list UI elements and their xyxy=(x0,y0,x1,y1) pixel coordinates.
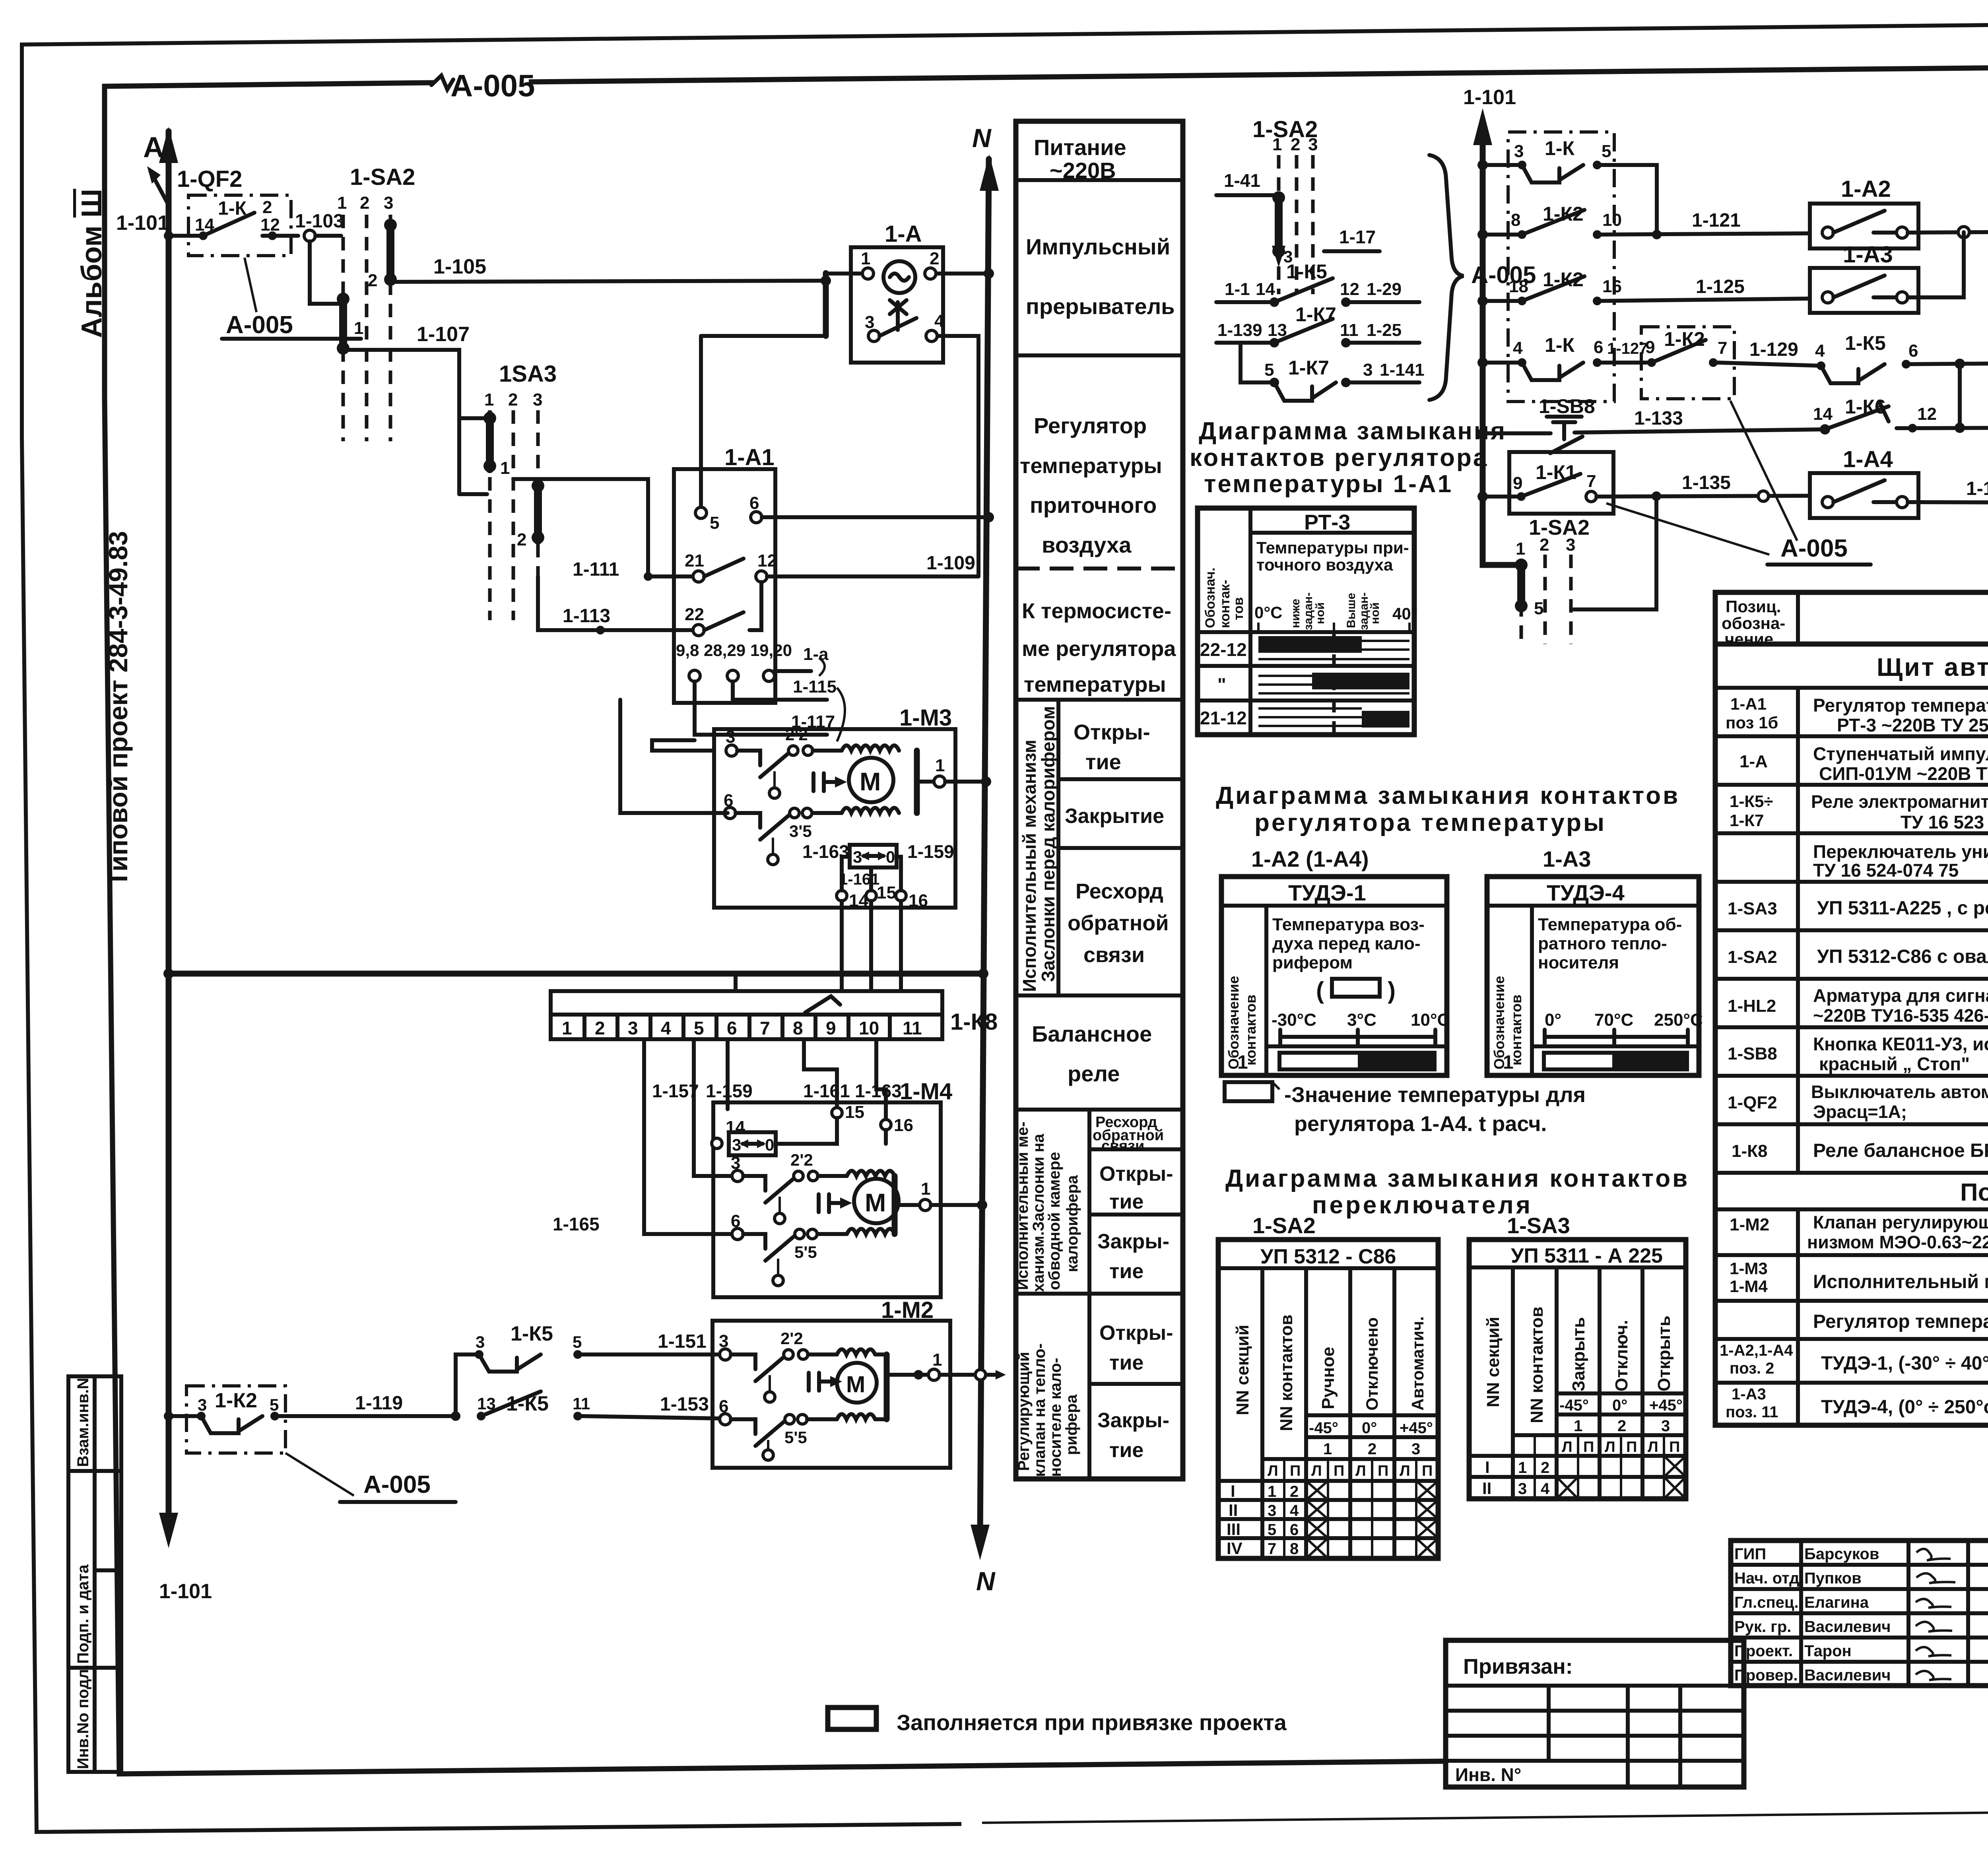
svg-text:1-135: 1-135 xyxy=(1682,472,1731,493)
svg-text:1: 1 xyxy=(935,756,945,775)
svg-text:3: 3 xyxy=(533,390,542,409)
svg-text:3: 3 xyxy=(1514,142,1524,161)
node 1-103 xyxy=(295,211,344,241)
svg-text:П: П xyxy=(1334,1463,1344,1479)
svg-text:6: 6 xyxy=(727,1018,737,1038)
contact 1-K (4-6) + wire 1-127 xyxy=(1477,334,1652,380)
svg-text:1-29: 1-29 xyxy=(1367,279,1402,299)
svg-text:2: 2 xyxy=(1290,1483,1299,1500)
svg-text:1: 1 xyxy=(921,1179,930,1199)
interrupter 1-A box xyxy=(851,221,944,363)
svg-text:1-17: 1-17 xyxy=(1339,227,1376,247)
svg-text:прерыватель: прерыватель xyxy=(1026,294,1175,319)
svg-text:1-105: 1-105 xyxy=(433,255,486,278)
svg-text:П: П xyxy=(1290,1463,1301,1479)
svg-text:1: 1 xyxy=(1574,1417,1582,1435)
svg-text:1: 1 xyxy=(484,390,494,409)
svg-text:5: 5 xyxy=(270,1395,279,1414)
svg-text:1-К1: 1-К1 xyxy=(1536,461,1576,483)
parts table: row 1-M2 xyxy=(1715,1212,1988,1255)
wire 1-121 xyxy=(1597,210,1810,235)
svg-text:0°С: 0°С xyxy=(1254,603,1283,622)
svg-text:1-К5: 1-К5 xyxy=(506,1392,549,1415)
callout A-005 (QF2 assembly) xyxy=(222,258,361,339)
parts table: row 1-K5..1-K7 xyxy=(1715,792,1988,833)
wire bus A to bus N (lower link) xyxy=(163,968,988,979)
svg-text:клапан на тепло-: клапан на тепло- xyxy=(1031,1343,1048,1477)
svg-text:Ступенчатый импульсный преры: Ступенчатый импульсный прерыватель xyxy=(1813,743,1988,764)
svg-text:1-165: 1-165 xyxy=(553,1214,600,1234)
svg-text:Регулятор температуры дилат: Регулятор температуры дилатометрический xyxy=(1813,1311,1988,1332)
svg-text:Взам.инв.N: Взам.инв.N xyxy=(74,1378,92,1467)
svg-text:8: 8 xyxy=(793,1018,803,1038)
svg-text:1-QF2: 1-QF2 xyxy=(177,166,242,192)
svg-text:3: 3 xyxy=(1518,1480,1527,1498)
svg-text:Л: Л xyxy=(1648,1439,1658,1455)
svg-text:1-А3: 1-А3 xyxy=(1732,1385,1766,1403)
table PT-3 (controller 1-A1 contact diagram) xyxy=(1198,508,1418,735)
svg-text:12: 12 xyxy=(1917,404,1937,424)
svg-text:ТУДЭ-4: ТУДЭ-4 xyxy=(1547,880,1625,905)
svg-text:22-12: 22-12 xyxy=(1200,639,1247,660)
parts table: row 1-K8 xyxy=(1715,1140,1988,1173)
svg-text:9: 9 xyxy=(1513,473,1522,493)
svg-text:5'5: 5'5 xyxy=(784,1428,807,1447)
svg-text:IV: IV xyxy=(1227,1539,1242,1558)
svg-text:Исполнительный механизм МЭО-: Исполнительный механизм МЭО-0.63 ~220В xyxy=(1813,1271,1988,1292)
svg-text:поз. 2: поз. 2 xyxy=(1730,1360,1774,1377)
contact 1-K2 (bottom row, assembly) xyxy=(164,1386,285,1453)
wire 1-105 xyxy=(394,255,826,282)
contact 1-K2 (18-16) xyxy=(1477,268,1622,306)
svg-text:РТ-3 ~220В ТУ 25-02(3У2 574: РТ-3 ~220В ТУ 25-02(3У2 574 096)-75Е xyxy=(1837,715,1988,735)
svg-text:Подп. и дата: Подп. и дата xyxy=(74,1564,92,1664)
function column frame xyxy=(1016,121,1183,1479)
svg-text:16: 16 xyxy=(1602,277,1622,296)
net label A-005 on frame top with break mark xyxy=(431,68,535,103)
svg-text:1-157: 1-157 xyxy=(652,1081,699,1101)
svg-text:3: 3 xyxy=(719,1331,728,1351)
svg-text:Альбом Ш: Альбом Ш xyxy=(76,189,108,338)
svg-text:Л: Л xyxy=(1605,1439,1615,1455)
wire 1-109 xyxy=(767,553,978,576)
svg-text:1-101: 1-101 xyxy=(1463,86,1516,109)
svg-text:ТУДЭ-1, (-30° ÷ 40°с) ТУ 25.0: ТУДЭ-1, (-30° ÷ 40°с) ТУ 25.02.281074-78 xyxy=(1821,1353,1988,1374)
svg-text:3: 3 xyxy=(853,848,862,866)
svg-text:2: 2 xyxy=(1540,535,1549,555)
svg-text:1-159: 1-159 xyxy=(706,1081,753,1101)
svg-text:9: 9 xyxy=(1645,338,1655,357)
svg-text:Исполнительный механизм: Исполнительный механизм xyxy=(1019,740,1040,992)
svg-text:3: 3 xyxy=(384,193,393,213)
cell: Питание ~220В xyxy=(1016,135,1183,183)
svg-text:1-SA3: 1-SA3 xyxy=(1728,899,1777,918)
svg-text:1-HL2: 1-HL2 xyxy=(1728,996,1776,1016)
wire 1-119 xyxy=(279,1393,456,1416)
svg-text:-45°: -45° xyxy=(1309,1419,1338,1437)
svg-text:2: 2 xyxy=(1291,135,1300,154)
svg-text:А-005: А-005 xyxy=(363,1471,431,1498)
svg-text:13: 13 xyxy=(477,1394,496,1413)
svg-text:1-41: 1-41 xyxy=(1224,170,1260,191)
svg-text:1-SA2: 1-SA2 xyxy=(1252,1213,1316,1238)
svg-text:Переключатель универсальный: Переключатель универсальный xyxy=(1813,841,1988,862)
svg-text:П: П xyxy=(1422,1463,1433,1479)
svg-text:Арматура для сигнальных лам: Арматура для сигнальных ламп АС-220 xyxy=(1813,985,1988,1006)
wires 1-K8 to 1-M4 xyxy=(553,1039,902,1234)
svg-text:1-А2: 1-А2 xyxy=(1841,176,1891,202)
svg-text:СИП-01УМ ~220В ТУ 50-58-76: СИП-01УМ ~220В ТУ 50-58-76 xyxy=(1819,763,1988,784)
svg-text:1-К2: 1-К2 xyxy=(1664,328,1705,350)
section: Исполнительный механизм Заслонки перед калорифером xyxy=(1016,700,1183,995)
svg-text:7: 7 xyxy=(1718,338,1727,358)
svg-text:УП 5312 - С86: УП 5312 - С86 xyxy=(1260,1245,1396,1268)
svg-text:Заполняется при привязке пр: Заполняется при привязке проекта xyxy=(897,1710,1287,1735)
svg-text:9: 9 xyxy=(826,1018,836,1038)
svg-text:1: 1 xyxy=(1503,1052,1514,1073)
svg-text:ГИП: ГИП xyxy=(1734,1545,1766,1563)
svg-text:Диаграмма замыкания контактов: Диаграмма замыкания контактов xyxy=(1225,1165,1689,1192)
svg-text:1-А: 1-А xyxy=(885,221,922,247)
svg-text:1-А1: 1-А1 xyxy=(724,444,775,470)
svg-text:6: 6 xyxy=(724,791,733,810)
svg-text:6: 6 xyxy=(749,493,759,513)
cell: Балансное реле xyxy=(1016,1021,1183,1110)
svg-text:ратного тепло-: ратного тепло- xyxy=(1538,934,1667,953)
svg-text:носителе кало-: носителе кало- xyxy=(1047,1358,1064,1477)
svg-text:1-113: 1-113 xyxy=(563,605,610,627)
svg-text:": " xyxy=(1217,674,1226,695)
svg-text:-Значение температуры для: -Значение температуры для xyxy=(1284,1083,1586,1107)
svg-text:N: N xyxy=(972,123,992,153)
svg-text:Ресхорд: Ресхорд xyxy=(1076,879,1163,903)
svg-text:Василевич: Василевич xyxy=(1804,1618,1891,1636)
svg-text:1-К5: 1-К5 xyxy=(511,1322,553,1345)
bus A (phase) vertical xyxy=(143,127,178,1548)
svg-text:1-163: 1-163 xyxy=(802,841,849,862)
svg-text:6: 6 xyxy=(1908,341,1918,361)
svg-text:Диаграмма замыкания контактов: Диаграмма замыкания контактов xyxy=(1216,782,1680,809)
svg-text:1-К: 1-К xyxy=(218,198,247,219)
button 1-SB8 and wire 1-133 xyxy=(1477,395,1825,453)
svg-text:Позиц.: Позиц. xyxy=(1726,597,1781,616)
svg-text:4: 4 xyxy=(1541,1480,1550,1498)
table UP5311-A225 (switch 1-SA3 diagram) xyxy=(1469,1240,1686,1499)
svg-text:Нач. отд.: Нач. отд. xyxy=(1734,1570,1804,1587)
svg-text:250°С: 250°С xyxy=(1654,1010,1703,1030)
svg-text:Регулятор: Регулятор xyxy=(1034,413,1147,438)
wire 1-a stub xyxy=(775,644,829,676)
svg-text:Отключено: Отключено xyxy=(1363,1318,1381,1411)
svg-text:А-005: А-005 xyxy=(226,311,293,339)
svg-text:1-137: 1-137 xyxy=(1966,478,1988,499)
svg-text:Регулирующий: Регулирующий xyxy=(1015,1352,1033,1471)
contact 1-K5 (14-12 row, middle) xyxy=(1216,260,1419,307)
svg-text:1-139: 1-139 xyxy=(1217,320,1262,340)
wires around 1-A xyxy=(701,268,994,576)
svg-text:+45°: +45° xyxy=(1400,1419,1433,1437)
svg-text:II: II xyxy=(1229,1501,1238,1519)
svg-text:1-163: 1-163 xyxy=(855,1081,902,1101)
controller contact 1-A3 box xyxy=(1810,242,1918,313)
svg-text:М: М xyxy=(846,1372,865,1397)
svg-text:Л: Л xyxy=(1311,1463,1322,1479)
svg-text:По месту: По месту xyxy=(1960,1179,1988,1206)
svg-text:3: 3 xyxy=(476,1333,485,1351)
svg-text:переключателя: переключателя xyxy=(1312,1191,1533,1219)
svg-text:Щит автоматизации П-1: Щит автоматизации П-1 xyxy=(1877,653,1988,681)
svg-text:тие: тие xyxy=(1109,1439,1143,1462)
svg-text:рифером: рифером xyxy=(1272,953,1353,972)
svg-text:1: 1 xyxy=(354,318,363,338)
svg-text:Закры-: Закры- xyxy=(1097,1230,1169,1253)
svg-text:1-К2: 1-К2 xyxy=(215,1389,257,1412)
contact 1-K (3-5) xyxy=(1477,137,1657,235)
svg-text:4: 4 xyxy=(1815,341,1825,361)
svg-text:3: 3 xyxy=(1363,360,1373,380)
table TUDE-4 (1-A3 contact diagram) xyxy=(1487,877,1703,1075)
svg-text:тие: тие xyxy=(1109,1260,1143,1283)
svg-text:контактов регулятора: контактов регулятора xyxy=(1190,444,1488,472)
svg-text:5: 5 xyxy=(573,1333,582,1351)
svg-text:5: 5 xyxy=(1268,1521,1276,1539)
svg-text:3: 3 xyxy=(1308,135,1318,154)
svg-text:1-SA2: 1-SA2 xyxy=(350,164,415,190)
svg-text:NN контактов: NN контактов xyxy=(1277,1314,1296,1431)
actuator 1-M2 box xyxy=(712,1297,950,1468)
svg-text:приточного: приточного xyxy=(1030,493,1157,518)
wire 1-131 and lamp 1-HL2 xyxy=(1960,324,1988,378)
svg-text:1SA3: 1SA3 xyxy=(499,361,557,387)
svg-text:1: 1 xyxy=(1272,135,1282,154)
svg-text:4: 4 xyxy=(1290,1502,1299,1519)
wire 1-M2 terminal 1 to bus N xyxy=(940,1370,1006,1380)
svg-text:11: 11 xyxy=(903,1018,922,1038)
wire 1-101 row xyxy=(164,231,203,241)
svg-text:Инв. N°: Инв. N° xyxy=(1455,1764,1521,1785)
svg-text:~220В: ~220В xyxy=(1050,158,1116,183)
svg-text:40°: 40° xyxy=(1392,604,1418,623)
svg-text:Реле балансное БР-3 ~220В: Реле балансное БР-3 ~220В ТУ 25.15.531-7… xyxy=(1813,1140,1988,1161)
svg-text:К термосисте-: К термосисте- xyxy=(1022,599,1171,623)
svg-text:3: 3 xyxy=(1661,1417,1670,1435)
svg-text:18: 18 xyxy=(1509,277,1528,296)
svg-text:3'5: 3'5 xyxy=(789,822,812,840)
svg-text:12: 12 xyxy=(757,551,777,570)
parts table: row ТУДЭ-1 xyxy=(1715,1342,1988,1383)
svg-text:10°С: 10°С xyxy=(1411,1010,1450,1030)
svg-text:21: 21 xyxy=(685,551,704,570)
svg-text:5: 5 xyxy=(694,1018,704,1038)
svg-text:0°: 0° xyxy=(1612,1397,1627,1414)
svg-text:1-161: 1-161 xyxy=(803,1081,850,1101)
svg-text:1-121: 1-121 xyxy=(1692,210,1741,231)
svg-text:7: 7 xyxy=(760,1018,770,1038)
svg-text:Открыть: Открыть xyxy=(1654,1316,1674,1391)
svg-text:Л: Л xyxy=(1355,1463,1366,1479)
svg-text:1-101: 1-101 xyxy=(159,1580,212,1603)
svg-text:Василевич: Василевич xyxy=(1804,1667,1891,1684)
svg-text:22: 22 xyxy=(685,605,704,624)
svg-text:УП 5311 - А 225: УП 5311 - А 225 xyxy=(1511,1244,1663,1267)
svg-text:Температура воз-: Температура воз- xyxy=(1272,915,1425,934)
svg-text:0°: 0° xyxy=(1362,1419,1377,1437)
svg-text:7: 7 xyxy=(1268,1540,1276,1558)
svg-text:Откры-: Откры- xyxy=(1074,720,1150,744)
svg-text:1-К7: 1-К7 xyxy=(1288,357,1329,379)
parts table: column lines xyxy=(1798,688,1988,1425)
wire 1-137 and relay coil 1-K7 xyxy=(1908,442,1988,530)
svg-text:Кнопка КЕ011-У3, исп 2 ТУ16: Кнопка КЕ011-У3, исп 2 ТУ16 526 407-76 xyxy=(1813,1034,1988,1054)
svg-text:ТУДЭ-4, (0° ÷ 250°с) ТУ 25.02: ТУДЭ-4, (0° ÷ 250°с) ТУ 25.02.281074-78 xyxy=(1821,1397,1988,1418)
svg-text:1-М4: 1-М4 xyxy=(900,1079,952,1104)
svg-text:1-К8: 1-К8 xyxy=(1732,1141,1767,1161)
svg-text:1: 1 xyxy=(861,249,870,268)
svg-text:связи: связи xyxy=(1101,1138,1144,1155)
svg-text:реле: реле xyxy=(1068,1061,1120,1086)
svg-text:3°С: 3°С xyxy=(1347,1010,1376,1030)
contact 1-K (14-12) in assembly box xyxy=(188,195,298,256)
svg-text:+45°: +45° xyxy=(1649,1397,1683,1414)
svg-text:3: 3 xyxy=(198,1395,207,1414)
table Привязан xyxy=(1446,1640,1744,1787)
contact 1-K2 (9-7) in assembly box xyxy=(1641,327,1734,399)
svg-text:низмом МЭО-0.63~220В ТУ1-277: низмом МЭО-0.63~220В ТУ1-277 ду= xyxy=(1807,1232,1988,1252)
wire 1-153 xyxy=(582,1394,723,1418)
svg-text:I: I xyxy=(1231,1482,1235,1500)
svg-text:точного воздуха: точного воздуха xyxy=(1256,555,1393,574)
svg-text:15: 15 xyxy=(877,883,896,902)
svg-text:6: 6 xyxy=(1594,338,1603,357)
svg-text:0: 0 xyxy=(765,1135,774,1154)
svg-text:5: 5 xyxy=(1602,142,1611,161)
wire 1-111 xyxy=(513,479,693,581)
callout A-005 (1-K2 assembly) xyxy=(285,1453,456,1502)
switch 1-SA2 (right section) xyxy=(1515,491,1661,644)
svg-text:рифера: рифера xyxy=(1063,1394,1080,1455)
svg-text:11: 11 xyxy=(1340,320,1359,340)
parts list table xyxy=(1715,592,1988,1425)
svg-text:регулятора температуры: регулятора температуры xyxy=(1254,809,1606,836)
svg-text:ниже: ниже xyxy=(1289,599,1302,628)
svg-text:Типовой проект 284-3-49.83: Типовой проект 284-3-49.83 xyxy=(103,531,133,887)
svg-text:ТУ 16 524-074 75: ТУ 16 524-074 75 xyxy=(1813,860,1959,881)
svg-text:1: 1 xyxy=(1323,1440,1332,1458)
parts table: row 1-A1 xyxy=(1715,695,1988,736)
svg-text:П: П xyxy=(1378,1463,1388,1479)
svg-text:Клапан регулирующий 254931нк: Клапан регулирующий 254931нк с исполните… xyxy=(1813,1212,1988,1232)
contact 1-K5 (4-6 NC) xyxy=(1815,332,1965,383)
svg-text:1-К7: 1-К7 xyxy=(1295,303,1336,326)
svg-text:поз. 11: поз. 11 xyxy=(1726,1403,1778,1421)
parts table: row 1-SA2 xyxy=(1715,941,1988,979)
svg-text:контак-: контак- xyxy=(1217,580,1233,628)
svg-text:Регулятор температуры электр: Регулятор температуры электрический xyxy=(1813,695,1988,716)
legend: заполняется при привязке xyxy=(828,1708,1287,1735)
svg-text:1-119: 1-119 xyxy=(355,1393,403,1414)
svg-text:Исполнительный ме-: Исполнительный ме- xyxy=(1014,1122,1031,1290)
svg-text:Закрытие: Закрытие xyxy=(1065,805,1164,828)
svg-text:воздуха: воздуха xyxy=(1042,532,1132,557)
svg-text:красный „ Стоп": красный „ Стоп" xyxy=(1819,1054,1970,1074)
svg-text:Рук. гр.: Рук. гр. xyxy=(1734,1618,1791,1636)
svg-text:обратной: обратной xyxy=(1068,911,1169,935)
svg-text:14: 14 xyxy=(849,891,868,910)
svg-text:1-К2: 1-К2 xyxy=(1543,203,1584,225)
svg-text:6: 6 xyxy=(1290,1521,1299,1539)
svg-text:5: 5 xyxy=(1264,360,1274,380)
parts table: section Щит автоматизации П-1 xyxy=(1715,653,1988,688)
svg-text:1: 1 xyxy=(562,1018,572,1038)
svg-text:температуры 1-А1: температуры 1-А1 xyxy=(1204,470,1453,498)
svg-text:0°: 0° xyxy=(1545,1010,1561,1030)
svg-text:2'2: 2'2 xyxy=(790,1151,813,1169)
svg-text:5'5: 5'5 xyxy=(794,1243,817,1261)
svg-text:1-109: 1-109 xyxy=(926,553,975,574)
svg-text:1: 1 xyxy=(337,193,347,213)
svg-text:ной: ной xyxy=(1314,602,1327,624)
svg-text:II: II xyxy=(1482,1479,1491,1498)
svg-text:Выше: Выше xyxy=(1345,593,1358,628)
svg-text:Ручное: Ручное xyxy=(1318,1347,1338,1409)
breaker 1-QF2 xyxy=(147,166,242,205)
legend: значение температуры xyxy=(1225,1082,1586,1136)
switch 1-SA2 (left section) xyxy=(310,164,415,441)
svg-text:-45°: -45° xyxy=(1559,1397,1589,1414)
svg-text:6: 6 xyxy=(731,1211,740,1231)
svg-text:Температура об-: Температура об- xyxy=(1538,915,1682,934)
svg-text:Инв.No подл.: Инв.No подл. xyxy=(74,1665,92,1769)
svg-text:7: 7 xyxy=(1586,472,1596,491)
switch 1SA3 xyxy=(459,361,557,620)
svg-text:3: 3 xyxy=(628,1018,638,1038)
wire 1-135 xyxy=(1596,472,1810,501)
svg-text:2'2: 2'2 xyxy=(785,725,808,744)
svg-text:А-005: А-005 xyxy=(1780,535,1848,562)
svg-text:70°С: 70°С xyxy=(1594,1010,1633,1030)
svg-text:РТ-3: РТ-3 xyxy=(1304,510,1350,534)
svg-text:1-129: 1-129 xyxy=(1749,339,1798,360)
svg-text:1-а: 1-а xyxy=(803,644,829,664)
svg-text:1: 1 xyxy=(500,458,510,478)
parts table: row Переключатель xyxy=(1715,841,1988,882)
svg-text:1-А: 1-А xyxy=(1739,752,1768,771)
margin strip table (Взам.инв N / Подп. и дата / Инв.No подл.) xyxy=(68,1376,121,1772)
svg-text:2: 2 xyxy=(595,1018,605,1038)
brace to A-005 (middle group) xyxy=(1429,155,1536,400)
svg-text:14: 14 xyxy=(1813,404,1833,424)
svg-text:Елагина: Елагина xyxy=(1804,1594,1869,1611)
svg-text:Закрыть: Закрыть xyxy=(1569,1317,1588,1391)
parts table: row 1-SA3 xyxy=(1715,892,1988,930)
svg-text:Выключатель автоматический А: Выключатель автоматический А63-МГ ~220В xyxy=(1811,1082,1988,1102)
wire 1-117 stub xyxy=(695,681,845,741)
svg-text:Гл.спец.: Гл.спец. xyxy=(1734,1594,1799,1611)
wire 1-107 xyxy=(346,323,470,494)
svg-text:2: 2 xyxy=(1541,1459,1549,1477)
parts table: row 1-SB8 xyxy=(1715,1034,1988,1076)
actuator 1-M3 box xyxy=(714,705,955,910)
svg-text:А-005: А-005 xyxy=(450,68,535,103)
wire 1-113 xyxy=(538,576,693,635)
contact 1-K7 (5-3 row, middle) xyxy=(1241,343,1425,401)
wire 1-125 xyxy=(1597,276,1810,301)
svg-text:тие: тие xyxy=(1109,1190,1143,1213)
svg-text:Откры-: Откры- xyxy=(1099,1321,1173,1345)
wires from 1-A1 to 1-M3 xyxy=(620,700,728,813)
controller contact 1-A2 box xyxy=(1810,176,1918,248)
svg-text:Отключ.: Отключ. xyxy=(1612,1320,1631,1391)
